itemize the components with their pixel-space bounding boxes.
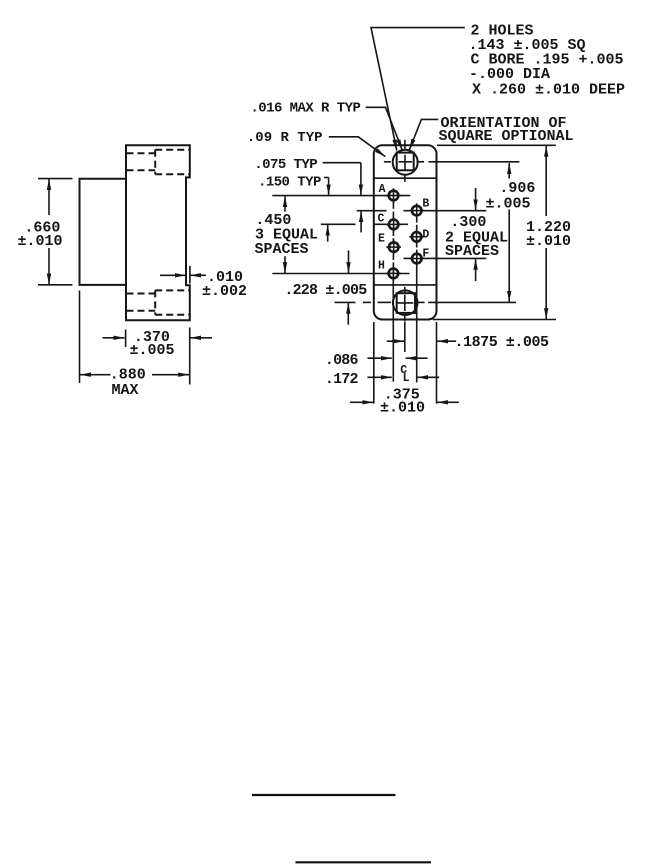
pin B (409, 198, 429, 218)
svg-text:L: L (403, 372, 410, 385)
svg-text:H: H (378, 259, 385, 272)
svg-text:A: A (379, 183, 386, 196)
dimension .075 TYP (254, 157, 361, 232)
svg-text:F: F (422, 247, 429, 260)
pin row line C (321, 223, 408, 225)
pin E (378, 233, 401, 255)
svg-text:E: E (378, 233, 385, 246)
svg-text:SPACES: SPACES (445, 243, 499, 260)
svg-text:±.010: ±.010 (526, 233, 571, 250)
svg-text:.016 MAX R TYP: .016 MAX R TYP (250, 101, 360, 117)
dimension .880 MAX (80, 291, 190, 400)
pin row line H (272, 273, 409, 275)
centerline symbol (400, 364, 409, 385)
note .09 R TYP (247, 130, 385, 157)
pin row line F (404, 257, 487, 259)
bottom rule 1 (252, 794, 396, 796)
hidden square hole bottom (dashed) (127, 290, 190, 314)
pin C (378, 213, 401, 232)
svg-text:.906: .906 (499, 180, 535, 197)
pin D (409, 228, 429, 244)
svg-text:.300: .300 (450, 214, 486, 231)
front view recess edge lines (374, 178, 437, 285)
side view flange (80, 179, 127, 285)
svg-text:±.010: ±.010 (18, 233, 63, 250)
svg-text:.150 TYP: .150 TYP (258, 175, 321, 191)
pin row line A (272, 195, 410, 197)
svg-text:C: C (378, 213, 385, 226)
svg-text:±.010: ±.010 (380, 400, 425, 417)
dimension .1875 ±.005 (387, 334, 549, 351)
extension line hole centerline below (404, 322, 406, 352)
bottom rule 2 (296, 861, 432, 863)
note 2 HOLES leader (371, 28, 465, 151)
svg-text:D: D (422, 228, 429, 241)
dimension .010 ±.002 (160, 266, 247, 300)
svg-text:SPACES: SPACES (255, 241, 309, 258)
svg-text:.228 ±.005: .228 ±.005 (284, 282, 367, 299)
dimension .906 ±.005 (486, 163, 536, 302)
dimension .370 ±.005 (103, 328, 213, 385)
extension line body right below (436, 322, 438, 404)
top square hole with counterbore (384, 140, 520, 182)
svg-text:MAX: MAX (112, 382, 139, 399)
bottom square hole with counterbore (335, 287, 516, 322)
pin A (379, 183, 401, 203)
note ORIENTATION OF SQUARE OPTIONAL (409, 115, 573, 150)
svg-text:B: B (422, 198, 429, 211)
svg-text:±.005: ±.005 (486, 196, 531, 213)
dimension .172 (325, 371, 439, 388)
pin H (378, 259, 401, 280)
svg-text:-.000 DIA: -.000 DIA (469, 66, 550, 83)
dimension .300 2 EQUAL SPACES (445, 188, 508, 281)
front view body outline (374, 145, 437, 319)
svg-text:.172: .172 (325, 371, 359, 388)
svg-text:.880: .880 (110, 367, 146, 384)
dimension .150 TYP (258, 175, 329, 242)
column centerline B-D-F (416, 217, 418, 383)
svg-text:.09 R TYP: .09 R TYP (247, 130, 323, 146)
extension line body left below (373, 322, 375, 404)
pin F (410, 247, 430, 266)
dimension .375 ±.010 (350, 387, 459, 417)
dimension 1.220 ±.010 (433, 145, 571, 319)
svg-text:SQUARE OPTIONAL: SQUARE OPTIONAL (439, 128, 574, 145)
dimension .228 ±.005 (284, 251, 367, 325)
column centerline A-C-E-H (392, 202, 394, 382)
note 2 HOLES text (469, 23, 626, 99)
svg-text:±.005: ±.005 (130, 342, 175, 359)
dimension .660 ±.010 (18, 179, 73, 285)
svg-text:.1875 ±.005: .1875 ±.005 (455, 334, 550, 351)
svg-text:.086: .086 (325, 352, 359, 369)
svg-text:.075 TYP: .075 TYP (254, 157, 317, 173)
pin row line B (357, 210, 487, 212)
dimension .450 3 EQUAL SPACES (255, 196, 319, 273)
dimension .086 (325, 352, 428, 369)
note .016 MAX R TYP (250, 101, 402, 151)
svg-text:X .260 ±.010 DEEP: X .260 ±.010 DEEP (472, 82, 625, 99)
svg-text:±.002: ±.002 (202, 283, 247, 300)
side view body outline (126, 145, 190, 320)
hidden square hole top (dashed) (127, 150, 190, 174)
